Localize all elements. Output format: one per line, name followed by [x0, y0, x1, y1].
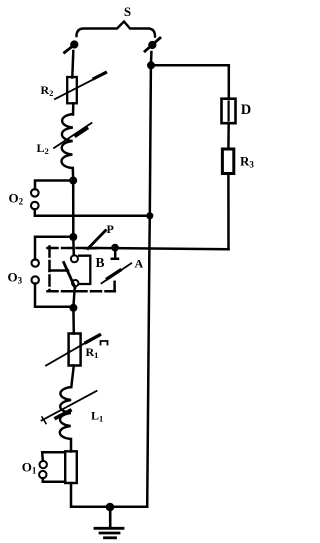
svg-text:R3: R3 — [240, 153, 254, 169]
node: pole2 / top-right wire junction — [147, 61, 155, 69]
switch S gang brace — [77, 22, 156, 37]
wire: L1 to O1 winding box — [70, 439, 73, 452]
label R2 — [41, 83, 54, 98]
svg-text:R1: R1 — [86, 345, 99, 360]
wire: top right to D branch — [151, 65, 229, 98]
relay box right edge lower stub — [113, 282, 116, 291]
inductor L1 coil — [60, 387, 72, 439]
rheostat R1' — [46, 334, 100, 366]
inductor L2 coil — [61, 114, 73, 168]
node: main / O3-bottom junction — [69, 304, 77, 312]
wire: O2 bottom to right line — [35, 209, 150, 216]
label R1' — [86, 341, 108, 360]
label D — [241, 102, 251, 118]
terminal O3 bottom circle — [32, 276, 39, 283]
svg-text:O2: O2 — [9, 190, 24, 206]
winding box at O1 — [65, 451, 77, 483]
svg-text:P: P — [107, 222, 114, 236]
wire: O1 box to bottom rail — [71, 483, 147, 507]
resistor R3 — [222, 149, 233, 174]
svg-text:D: D — [241, 102, 251, 118]
svg-text:L2: L2 — [37, 141, 49, 156]
switch S label — [124, 4, 131, 19]
wire: node to rheostat R1' — [72, 308, 75, 334]
node: O2 wire / right line junction — [146, 212, 153, 219]
terminal O1 top circle and wire — [40, 452, 66, 468]
terminal O2 top circle — [31, 189, 39, 197]
contact P blade — [86, 231, 106, 249]
switch S pole 1 blade — [65, 41, 78, 52]
relay enclosure (dashed box) — [48, 247, 115, 292]
label L2 — [37, 141, 49, 156]
terminal O3 top circle — [32, 259, 39, 266]
wire: P node to right branch — [97, 248, 229, 249]
switch B armature pusher — [50, 269, 69, 272]
wire: R3 down to P-node wire — [227, 174, 230, 250]
label P — [107, 222, 114, 236]
relay box right edge upper stub — [112, 250, 118, 259]
terminal O1 bottom circle and wire — [39, 471, 65, 482]
svg-text:A: A — [135, 257, 144, 271]
svg-text:L1: L1 — [91, 409, 103, 424]
label L1 — [91, 409, 103, 424]
switch B bottom contact circle — [72, 280, 78, 286]
wire: O3 top circle to node — [35, 237, 73, 260]
svg-text:O3: O3 — [8, 269, 23, 285]
wire: R1' to L1 — [71, 366, 74, 388]
inductor L2 arrow — [54, 123, 92, 148]
contact A blade — [102, 263, 132, 283]
wire: right switch line (pole2 down to bottom rail) — [147, 52, 151, 507]
switch B blade — [64, 263, 75, 288]
wire: main line P node to contact B top circle — [72, 237, 75, 255]
wire: D to R3 — [227, 123, 230, 149]
resistor R2 — [55, 73, 106, 104]
terminal O2 bottom circle — [31, 202, 39, 210]
node: ground junction — [106, 503, 115, 512]
node: P fixed contact on wire — [111, 244, 119, 252]
svg-text:R2: R2 — [41, 83, 54, 98]
svg-text:S: S — [124, 4, 131, 19]
wire: R2 to L2 — [72, 103, 75, 114]
svg-text:B: B — [96, 255, 105, 270]
label A — [135, 257, 144, 271]
inductor L1 arrow — [42, 391, 97, 424]
wire: O3 bottom circle to lower node — [35, 284, 73, 307]
switch S pole 2 blade — [145, 38, 160, 51]
wire: main line through O2 crossing down to P node — [72, 181, 75, 238]
wire: B bottom circle to lower node — [73, 286, 74, 306]
label O2 — [9, 190, 24, 206]
fuse D — [222, 99, 236, 124]
ground — [95, 507, 123, 538]
svg-text:O1: O1 — [22, 460, 37, 476]
wire: node to O2 top terminal — [35, 181, 73, 190]
label R3 — [240, 153, 254, 169]
node: main / O3-top junction — [69, 233, 77, 241]
wire: pole1 to R2 — [72, 51, 73, 78]
node: L2/O2 junction — [69, 177, 77, 185]
label O3 — [8, 269, 23, 285]
label B — [96, 255, 105, 270]
switch B fixed bracket — [79, 256, 90, 284]
label O1 — [22, 460, 37, 476]
wire: L2 to node — [72, 168, 75, 181]
switch B top contact circle — [71, 255, 78, 262]
